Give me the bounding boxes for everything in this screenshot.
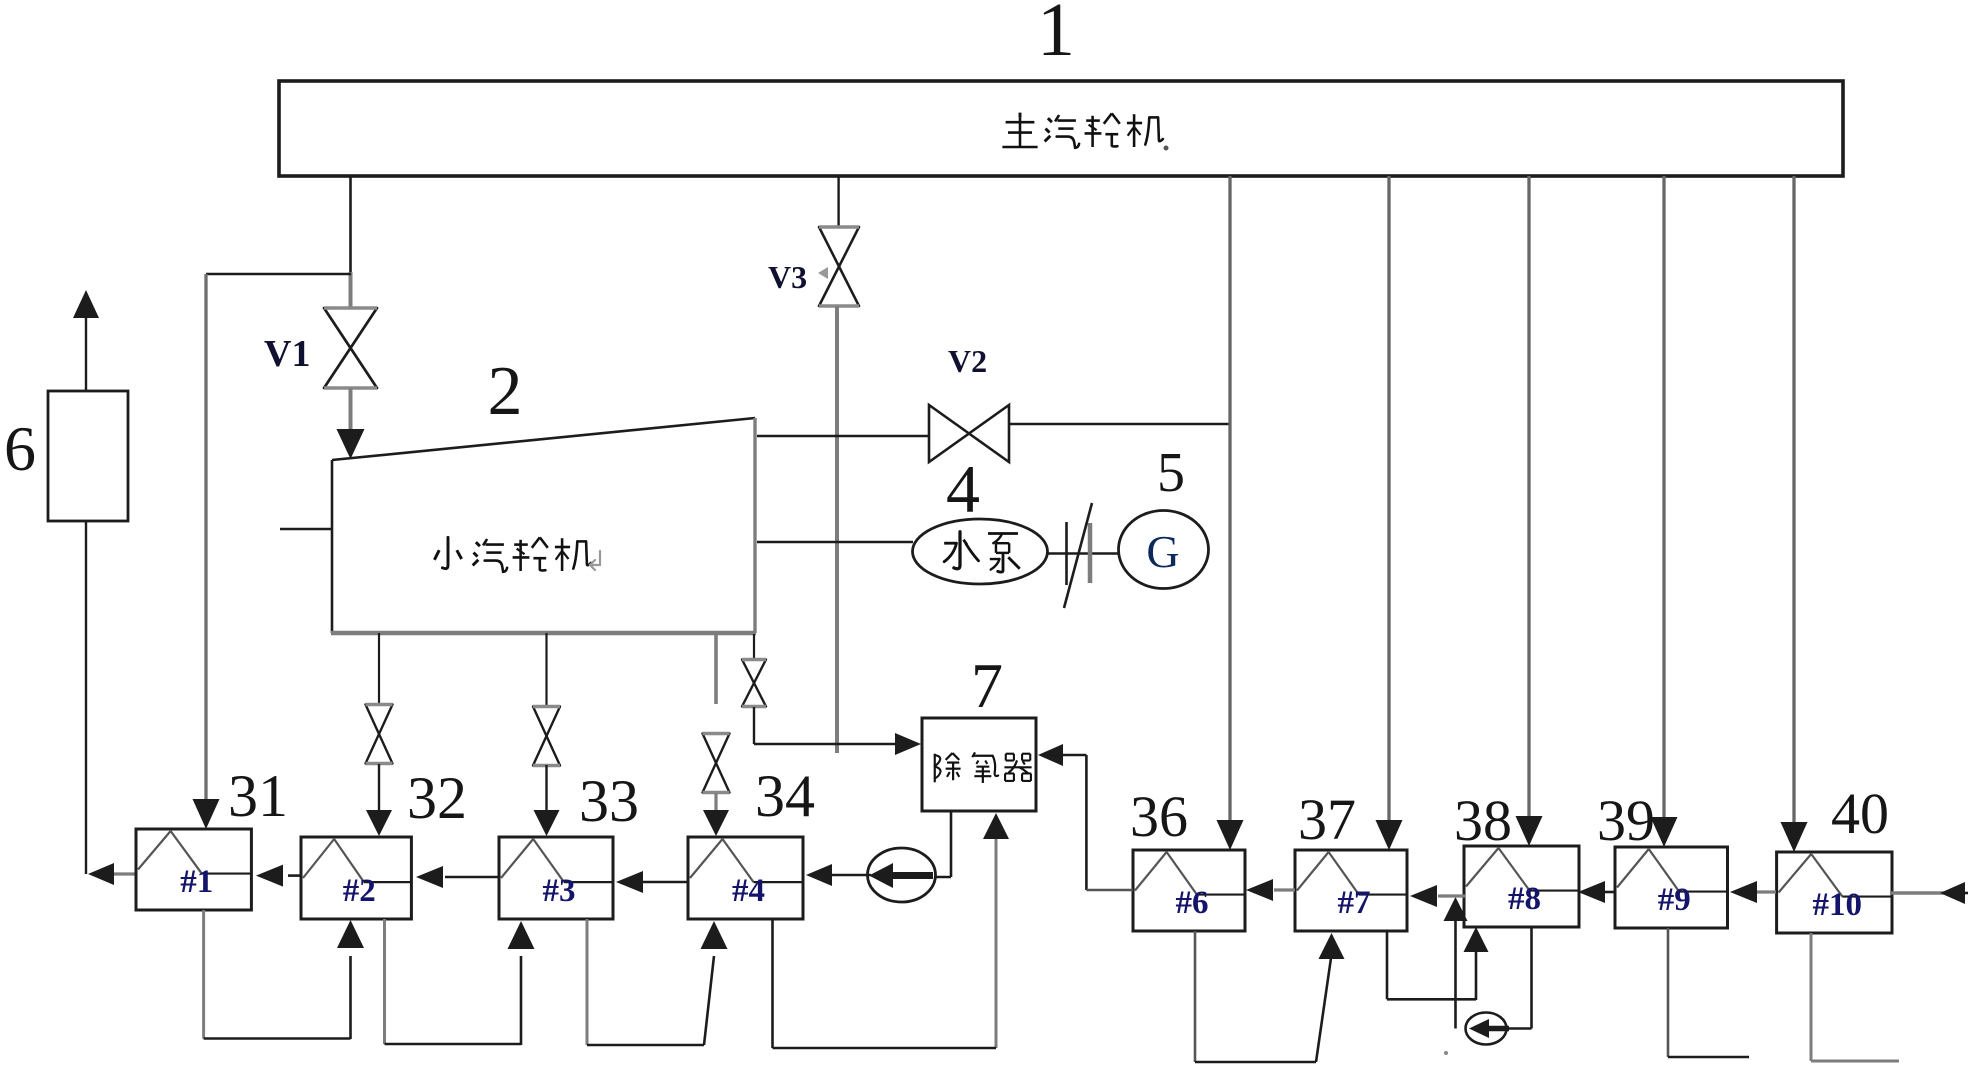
- svg-text:40: 40: [1831, 781, 1889, 846]
- svg-text:7: 7: [971, 650, 1003, 721]
- svg-text:#10: #10: [1813, 887, 1863, 923]
- svg-text:1: 1: [1037, 0, 1075, 72]
- svg-text:36: 36: [1130, 784, 1188, 849]
- svg-text:#7: #7: [1338, 885, 1371, 921]
- svg-text:33: 33: [579, 768, 639, 834]
- svg-text:#9: #9: [1658, 882, 1691, 918]
- svg-text:V3: V3: [768, 259, 807, 295]
- svg-text:#2: #2: [343, 873, 376, 909]
- svg-text:5: 5: [1157, 442, 1185, 504]
- svg-text:32: 32: [407, 765, 467, 831]
- svg-text:37: 37: [1298, 787, 1356, 852]
- svg-text:2: 2: [488, 353, 523, 430]
- svg-text:34: 34: [755, 763, 815, 829]
- svg-text:V2: V2: [948, 343, 987, 379]
- svg-text:G: G: [1146, 526, 1179, 577]
- svg-text:4: 4: [946, 451, 980, 527]
- svg-text:38: 38: [1454, 788, 1512, 853]
- svg-text:#6: #6: [1176, 885, 1209, 921]
- svg-text:#3: #3: [543, 873, 576, 909]
- svg-text:31: 31: [228, 763, 288, 829]
- svg-text:39: 39: [1597, 788, 1655, 853]
- svg-text:6: 6: [4, 413, 36, 484]
- svg-text:#8: #8: [1508, 881, 1541, 917]
- svg-text:#1: #1: [180, 864, 213, 900]
- svg-text:V1: V1: [264, 333, 310, 375]
- svg-text:#4: #4: [732, 873, 765, 909]
